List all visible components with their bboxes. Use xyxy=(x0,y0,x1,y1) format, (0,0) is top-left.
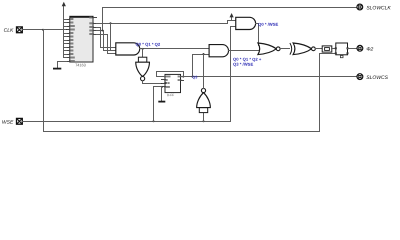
svg-text:Q0 * Q1 * Q2: Q0 * Q1 * Q2 xyxy=(136,42,161,47)
svg-text:Φ2: Φ2 xyxy=(366,47,373,53)
svg-text:SLOWCS: SLOWCS xyxy=(366,75,388,81)
svg-text:Q3: Q3 xyxy=(192,75,197,79)
svg-text:Q0 * /WSE: Q0 * /WSE xyxy=(258,22,278,27)
svg-text:Q3 * /WSE: Q3 * /WSE xyxy=(233,62,253,67)
svg-text:D-FF: D-FF xyxy=(167,93,174,97)
svg-text:CLK: CLK xyxy=(4,28,14,34)
svg-text:WSE: WSE xyxy=(2,120,14,126)
svg-text:SLOWCLK: SLOWCLK xyxy=(366,5,391,11)
svg-text:74163: 74163 xyxy=(75,63,86,67)
